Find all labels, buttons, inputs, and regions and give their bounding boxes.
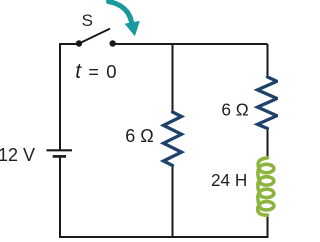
svg-text:t: t xyxy=(75,60,82,83)
svg-text:S: S xyxy=(82,11,93,30)
svg-text:6 Ω: 6 Ω xyxy=(125,126,153,146)
svg-text:6 Ω: 6 Ω xyxy=(221,100,248,120)
svg-text:12 V: 12 V xyxy=(0,145,35,165)
svg-text:24 H: 24 H xyxy=(211,170,247,190)
svg-text:=: = xyxy=(88,62,99,82)
svg-text:0: 0 xyxy=(106,61,116,82)
